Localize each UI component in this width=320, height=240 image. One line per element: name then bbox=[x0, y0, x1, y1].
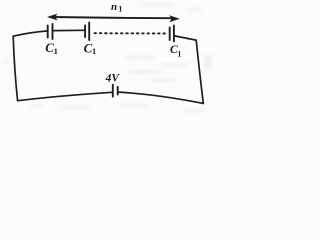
wire bbox=[118, 92, 203, 103]
capacitor C1 bbox=[170, 26, 174, 42]
wire bbox=[53, 29, 84, 31]
label C1 bbox=[84, 40, 97, 56]
svg-text:1: 1 bbox=[118, 3, 122, 13]
wire bbox=[18, 92, 113, 100]
svg-text:1: 1 bbox=[92, 46, 96, 56]
svg-text:1: 1 bbox=[177, 50, 181, 59]
svg-text:4V: 4V bbox=[105, 73, 121, 85]
label 4V bbox=[105, 73, 121, 85]
label n1 bbox=[111, 1, 122, 14]
dotted wire bbox=[95, 32, 167, 34]
capacitor C1 bbox=[85, 23, 89, 41]
wire bbox=[13, 36, 17, 101]
label C1 bbox=[170, 44, 181, 59]
capacitor C1 bbox=[48, 24, 53, 39]
span arrow n1 bbox=[48, 14, 178, 21]
label C1 bbox=[45, 40, 58, 56]
svg-text:1: 1 bbox=[54, 46, 58, 56]
svg-text:n: n bbox=[111, 1, 117, 13]
wire bbox=[196, 40, 203, 103]
battery 4V bbox=[113, 85, 118, 97]
wire bbox=[175, 36, 196, 40]
wire bbox=[13, 31, 47, 36]
